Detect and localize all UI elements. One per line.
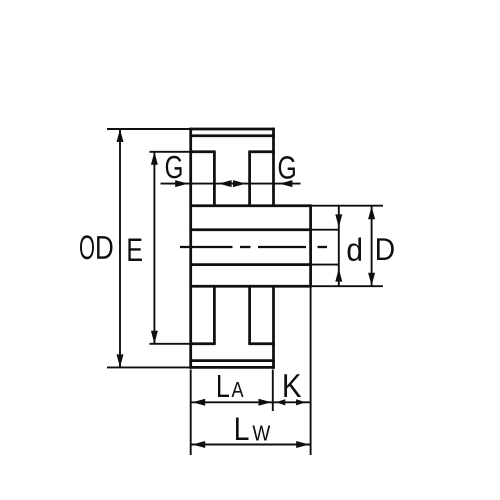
D arrow down [368, 273, 375, 286]
label E [128, 239, 142, 261]
right face vertical top [272, 128, 275, 206]
label K [284, 374, 301, 397]
E dimension line [153, 152, 155, 344]
bore top extension right [311, 229, 340, 231]
label D right [377, 238, 394, 260]
extension below right face [272, 370, 274, 412]
arrowheads [117, 129, 376, 448]
left face vertical [189, 128, 192, 369]
label OD [80, 235, 113, 259]
hub bottom extension right [312, 285, 383, 287]
label d [348, 238, 361, 262]
d dimension line [338, 206, 340, 287]
hub step bottom edges [189, 342, 215, 345]
LW dimension line [191, 444, 311, 446]
E extension top [150, 151, 191, 153]
bore top line [189, 228, 310, 231]
label LW [236, 418, 270, 441]
top step right vertical [248, 152, 251, 206]
LA K dimension line [191, 401, 311, 403]
LW arrow left [192, 441, 205, 448]
label LA [218, 375, 244, 397]
hub top extension right [312, 205, 383, 207]
LW arrow right [296, 441, 309, 448]
hub top edge [189, 204, 312, 207]
OD extension bottom [107, 366, 190, 368]
K arrow right [296, 399, 306, 405]
hub bottom edge [189, 285, 312, 288]
bore bottom line [189, 263, 310, 266]
d arrow up [335, 269, 342, 282]
G middle arrow left [219, 180, 232, 187]
right face vertical bottom [272, 286, 275, 369]
extension below left face [190, 370, 192, 456]
OD extension top [107, 128, 190, 130]
label G left [166, 156, 182, 179]
d arrow down [335, 214, 342, 227]
flange outer line top (OD) [189, 128, 274, 131]
flange outer line bottom (OD) [189, 366, 274, 369]
G dimension line [161, 183, 301, 185]
OD dimension line [119, 129, 121, 367]
hub step top edges [189, 150, 215, 153]
center line (axis) [180, 246, 327, 248]
OD arrow up [117, 129, 124, 142]
E extension bottom [150, 343, 191, 345]
G middle arrow right [233, 180, 246, 187]
bore bottom extension right [311, 264, 340, 266]
hub right face vertical [309, 206, 312, 287]
K arrow left [276, 399, 286, 405]
D dimension line [371, 206, 373, 287]
tooth root line top [189, 134, 274, 137]
bottom step right vertical [248, 286, 251, 344]
LA arrow right [259, 399, 272, 406]
pulley profile outline (thick lines) [189, 128, 312, 369]
tooth root line bottom [189, 359, 274, 362]
E arrow down [151, 331, 158, 344]
G right arrow left [279, 180, 292, 187]
top step left vertical [213, 152, 216, 206]
D arrow up [368, 206, 375, 219]
extension below hub right face [310, 288, 312, 456]
label G right [279, 156, 295, 179]
E arrow up [151, 152, 158, 165]
G left arrow right [175, 180, 188, 187]
bottom step left vertical [213, 286, 216, 344]
OD arrow down [117, 354, 124, 367]
dimension and extension lines (thin) [107, 129, 383, 455]
LA arrow left [192, 399, 205, 406]
